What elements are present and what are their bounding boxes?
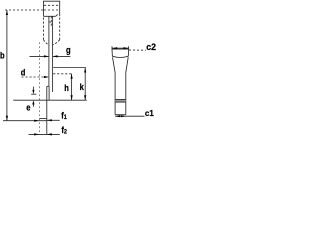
right view right upper side	[127, 49, 129, 56]
shank hidden line 1	[44, 4, 59, 6]
arrow f1 right	[47, 119, 52, 121]
right view taper left	[113, 57, 116, 72]
dim c2 line	[112, 47, 128, 49]
arrow e bottom	[32, 100, 34, 104]
dim c2 tick right	[128, 46, 130, 49]
taper left	[44, 40, 49, 45]
svg-text:f1: f1	[61, 110, 67, 121]
right view top edge	[112, 48, 129, 50]
arrow h bottom	[71, 95, 73, 100]
dim k line	[84, 68, 86, 101]
svg-text:f2: f2	[61, 125, 67, 136]
neck left outer	[43, 18, 45, 40]
channel bottom	[49, 21, 51, 23]
blade edge right	[52, 16, 54, 92]
shank hidden line 2	[44, 9, 59, 11]
dim f1 right line	[47, 119, 60, 121]
arrow c2 left	[112, 47, 117, 49]
middle short line	[50, 16, 52, 26]
svg-text:c2: c2	[146, 42, 156, 52]
arrow c1 left	[115, 115, 120, 117]
dim d line	[22, 76, 49, 78]
dim g right line	[53, 55, 70, 57]
dim c2 leader dashed	[129, 49, 146, 51]
arrow g right	[53, 55, 58, 57]
neck right outer	[59, 18, 61, 40]
svg-text:e: e	[26, 102, 31, 113]
arrow k top	[84, 68, 86, 73]
arrow f1 left	[34, 120, 39, 122]
blade edge left	[48, 16, 50, 86]
dim c2 tick left	[111, 46, 113, 49]
taper right	[53, 40, 60, 45]
arrow c1 right	[121, 115, 126, 117]
right view left upper side	[111, 49, 113, 56]
right view straight right	[125, 73, 127, 115]
arrow b top	[6, 10, 8, 15]
right view taper right	[126, 57, 128, 72]
svg-text:h: h	[64, 82, 69, 93]
dim c1 line	[115, 115, 144, 117]
arrow k bottom	[84, 95, 86, 100]
right view straight left	[114, 73, 116, 115]
arrow h top	[71, 74, 73, 79]
dim e top stub	[31, 93, 36, 95]
dim b bottom extension	[3, 120, 47, 122]
svg-text:b: b	[0, 50, 5, 61]
dim b line	[6, 10, 8, 121]
arrow b bottom	[6, 116, 8, 121]
right view band fill	[115, 100, 126, 103]
tip bottom edge	[40, 118, 47, 120]
dim h line	[71, 74, 73, 100]
arrow f2 left	[34, 133, 39, 135]
dim f2 line	[29, 133, 60, 135]
right view bottom edge	[115, 114, 126, 116]
arrow e top	[32, 90, 34, 94]
phantom flare dashed	[39, 42, 41, 134]
tip inner edge	[48, 86, 50, 100]
svg-text:d: d	[21, 67, 26, 78]
tip step horizontal	[47, 85, 49, 87]
svg-text:c1: c1	[145, 109, 154, 118]
svg-text:g: g	[66, 44, 71, 55]
shank outline	[44, 1, 60, 16]
right view band line 1	[115, 99, 126, 101]
arrow f2 right	[47, 133, 52, 135]
dim e lower seg	[32, 104, 34, 107]
right view band line 2	[115, 101, 126, 103]
svg-text:k: k	[80, 82, 85, 93]
dim g left line	[30, 55, 49, 57]
dim h extension	[53, 73, 73, 75]
right view waist curve	[112, 56, 128, 57]
arrow c2 right	[123, 47, 128, 49]
arrow d	[44, 76, 49, 78]
arrow g left	[44, 55, 49, 57]
tip edge extension to f2	[46, 119, 48, 135]
dim e upper seg	[32, 87, 34, 91]
tip left edge	[46, 86, 48, 118]
dim b top extension dashed	[5, 9, 44, 11]
extension line y100	[13, 99, 87, 101]
dim k extension	[53, 67, 86, 69]
